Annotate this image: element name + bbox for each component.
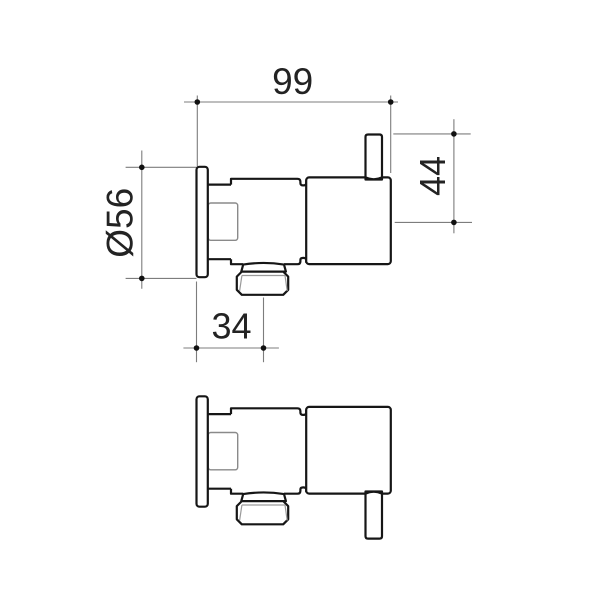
dimension Ø56 dim line — [126, 151, 197, 289]
extension line right (body right) — [390, 96, 392, 174]
svg-text:44: 44 — [412, 156, 453, 196]
extension line top (plate top) — [126, 166, 197, 168]
mixer barrel (bottom view) — [306, 407, 391, 494]
dim dot 99 right — [388, 99, 394, 105]
dim dot 44 bottom — [451, 220, 457, 226]
nut facet lines (top view) — [240, 276, 288, 292]
extension line bottom (axis) — [395, 221, 472, 223]
dimension 44 dim line — [393, 119, 472, 233]
dim dot 34 right — [261, 345, 267, 351]
cartridge square (top view) — [208, 203, 237, 240]
dim dot 56 top — [139, 165, 145, 171]
extension line top (pin top) — [393, 133, 470, 135]
svg-text:34: 34 — [211, 305, 251, 346]
valve body (top view) — [231, 179, 306, 264]
pin base arc (bottom view) — [366, 492, 383, 494]
wall plate (top view) — [197, 167, 208, 277]
extension line left (plate face) — [196, 96, 198, 167]
outlet nut (top view) — [237, 272, 288, 295]
mixer barrel (top view) — [306, 177, 391, 264]
handle pin (top view) — [366, 135, 383, 180]
svg-text:99: 99 — [272, 61, 313, 102]
dimension 34 dim line — [183, 282, 279, 363]
pin base arc (top view) — [366, 177, 383, 179]
dim dot 99 left — [195, 99, 201, 105]
dimension 99 dim line — [184, 96, 398, 174]
valve body (bottom view) — [231, 408, 306, 493]
outlet collar (bottom view) — [241, 492, 286, 501]
wall plate (bottom view) — [197, 396, 208, 506]
nut facet lines (bottom view) — [240, 505, 288, 521]
extension line left (plate face) — [196, 282, 198, 363]
dim dot 56 bottom — [139, 276, 145, 282]
dim dot 44 top — [451, 131, 457, 137]
extension line right (outlet axis) — [263, 298, 265, 363]
neck bottom line (bottom view) — [208, 488, 231, 490]
neck top line (top view) — [208, 184, 231, 186]
cartridge square (bottom view) — [208, 433, 237, 470]
outlet nut (bottom view) — [237, 501, 288, 524]
neck top line (bottom view) — [208, 413, 231, 415]
dim dot 34 left — [194, 345, 200, 351]
outlet collar (top view) — [241, 263, 286, 272]
extension line bottom (plate bottom) — [126, 277, 197, 279]
svg-text:Ø56: Ø56 — [99, 188, 140, 258]
neck bottom line (top view) — [208, 258, 231, 260]
handle pin (bottom view) — [366, 492, 383, 539]
